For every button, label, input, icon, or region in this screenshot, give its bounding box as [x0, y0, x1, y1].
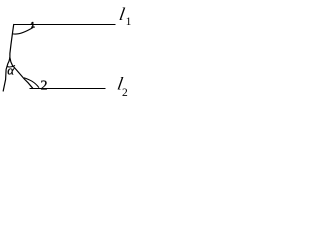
segment BC (from vertex B down-right to C on l2) — [10, 58, 33, 89]
segment AB (transversal from l1 down to vertex B) — [10, 25, 14, 58]
label l1 — [118, 4, 127, 24]
angle alpha arc at B — [7, 65, 15, 67]
label angle 1 (drawn as paths: flag, stem, base serif) — [31, 22, 35, 27]
angle 2 arc at C — [24, 78, 39, 88]
line l2 — [29, 88, 105, 90]
label l2 — [116, 74, 125, 94]
svg-text:2: 2 — [122, 87, 128, 99]
svg-text:1: 1 — [126, 16, 132, 28]
line l1 — [14, 24, 116, 26]
angle 1 arc at A — [12, 28, 33, 35]
svg-text:2: 2 — [41, 79, 48, 94]
segment BD (extension of AB below vertex B) — [3, 58, 10, 91]
svg-text:α: α — [7, 62, 15, 77]
